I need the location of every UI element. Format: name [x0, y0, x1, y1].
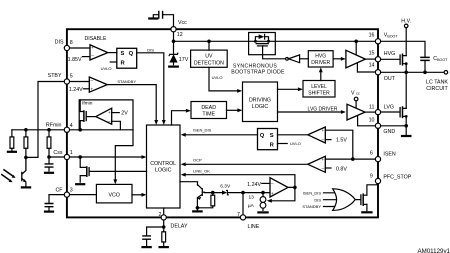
wire 0.8V reference stub: [325, 167, 331, 169]
pin 4 RFmin: [64, 127, 69, 132]
svg-text:16: 16: [369, 32, 375, 38]
svg-text:ISEN_DIS: ISEN_DIS: [193, 128, 212, 133]
wire 1.24V reference stub: [262, 182, 270, 184]
pin 8 DIS: [64, 45, 69, 50]
svg-text:+: +: [271, 191, 274, 196]
wire half-bridge node: [405, 64, 407, 73]
svg-text:STBY: STBY: [48, 73, 62, 79]
node RFmin / Ifmin source: [78, 128, 82, 132]
svg-text:VBOOT: VBOOT: [384, 33, 399, 39]
transistor Q low-side MOSFET: [381, 111, 400, 113]
node H.V. terminal: [404, 24, 408, 28]
pin 16 VBOOT: [375, 39, 380, 44]
svg-text:+: +: [321, 157, 324, 162]
pin 6 ISEN: [375, 157, 380, 162]
svg-text:LOGIC: LOGIC: [252, 104, 269, 110]
svg-text:Css: Css: [53, 150, 62, 156]
diode bootstrap: [255, 37, 268, 42]
ground (Css cap): [45, 172, 53, 174]
svg-text:DIS: DIS: [314, 197, 321, 202]
op-amp HVG output buffer: [346, 50, 366, 68]
op-amp Ifmin error amp 2V: [96, 108, 112, 124]
svg-text:SHIFTER: SHIFTER: [308, 90, 330, 96]
wire LINE internal rail: [205, 192, 271, 194]
svg-text:8: 8: [70, 40, 73, 46]
svg-text:STANDBY: STANDBY: [117, 79, 136, 84]
svg-text:6.3V: 6.3V: [220, 183, 231, 189]
svg-text:1.24V: 1.24V: [247, 182, 261, 188]
wire comparator to latch S: [108, 52, 117, 54]
svg-text:CONTROL: CONTROL: [150, 161, 176, 167]
svg-text:Vcc: Vcc: [178, 20, 187, 26]
wire STANDBY signal to control logic: [107, 85, 156, 121]
ground (zener 17V): [169, 65, 178, 67]
wire driving logic LVG out: [278, 111, 342, 113]
svg-text:LC TANK: LC TANK: [426, 79, 448, 85]
svg-text:DRIVING: DRIVING: [249, 97, 271, 103]
ground (line clamp): [193, 210, 201, 212]
node bootstrap diode cathode tap: [267, 40, 270, 43]
svg-text:LVG: LVG: [384, 105, 394, 111]
wire 1.5V reference stub: [325, 139, 331, 141]
wire latch S from comparator: [278, 134, 308, 136]
wire UV detection to rail: [208, 41, 210, 50]
wire dead time to driving logic: [227, 109, 239, 111]
svg-text:PFC_STOP: PFC_STOP: [383, 175, 411, 181]
wire HVG driver to output stage: [333, 58, 342, 60]
svg-text:0.8V: 0.8V: [336, 167, 347, 173]
svg-text:BOOTSTRAP DIODE: BOOTSTRAP DIODE: [231, 69, 285, 75]
wire buffer to HVG pin 15: [365, 58, 375, 60]
wire Css pin external: [49, 156, 64, 158]
svg-text:17V: 17V: [179, 57, 189, 63]
svg-text:RFmin: RFmin: [46, 122, 62, 128]
resistor Rfmin: [11, 130, 13, 151]
wire OUT pin to LC tank: [381, 71, 445, 73]
wire control logic to DELAY pin 2: [163, 208, 165, 215]
op-amp standby comparator 1.24V: [89, 77, 107, 92]
svg-text:Ifmin: Ifmin: [82, 101, 93, 107]
svg-text:HVG: HVG: [384, 51, 395, 57]
svg-text:1.5V: 1.5V: [336, 137, 347, 143]
svg-text:+: +: [108, 110, 111, 115]
wire STBY pin to external optocoupler: [28, 82, 64, 158]
svg-text:GND: GND: [383, 129, 395, 135]
wire VBOOT to buffer top: [355, 41, 357, 54]
wire pin 5 to standby comparator: [70, 81, 90, 83]
transistor bootstrap sync MOSFET: [256, 43, 268, 45]
capacitor Vcc bypass: [159, 12, 163, 19]
node Vcc terminal LVG: [354, 97, 358, 101]
ground (PFC MOSFET): [362, 211, 371, 213]
node optocoupler collector: [24, 156, 28, 160]
wire control logic to dead time: [172, 111, 187, 125]
pin 10 GND: [375, 123, 380, 128]
node Vcc rail / zener: [172, 40, 176, 44]
wire UVLO from UV detection to driving logic: [209, 67, 238, 91]
node LINE pin tap: [241, 191, 245, 195]
ground (Css MOSFET): [76, 183, 84, 185]
wire ISEN pin 6 line: [325, 158, 375, 160]
flip-flop S-R latch (ISEN): [258, 129, 278, 150]
wire latch Q DIS signal to control logic: [137, 53, 164, 121]
block Ifmin: [79, 100, 133, 130]
wire driving logic to level shifter: [278, 88, 299, 90]
svg-text:15: 15: [369, 51, 375, 57]
svg-text:µA: µA: [248, 203, 255, 209]
svg-text:HVG: HVG: [315, 53, 326, 59]
transistor PFC_STOP open drain MOSFET: [360, 195, 362, 205]
wire 1.85V reference stub: [82, 56, 90, 58]
wire LINE_OK to control logic: [185, 174, 295, 176]
svg-text:DETECTION: DETECTION: [194, 60, 224, 66]
svg-text:6: 6: [370, 151, 373, 157]
wire GND pin to ground: [381, 125, 407, 127]
pin 14 OUT: [375, 70, 380, 75]
ground (delay resistor): [160, 246, 168, 248]
op-amp LVG output buffer: [347, 104, 365, 120]
pin 5 STBY: [64, 79, 69, 84]
wire amp feedback to RFmin line: [112, 121, 121, 130]
svg-text:–: –: [108, 119, 111, 124]
svg-text:14: 14: [369, 62, 375, 68]
svg-text:–: –: [322, 166, 325, 171]
svg-text:DIS: DIS: [147, 48, 154, 53]
svg-text:AM01129v1: AM01129v1: [417, 248, 450, 253]
wire VBOOT to CBOOT: [381, 41, 425, 57]
block CONTROL LOGIC: [147, 125, 181, 208]
svg-text:+: +: [91, 45, 94, 50]
ground (optocoupler): [22, 186, 30, 188]
svg-text:STANDBY: STANDBY: [302, 204, 321, 209]
svg-text:1.24V: 1.24V: [69, 87, 83, 93]
op-amp ISEN 1.5V comparator: [308, 127, 326, 143]
svg-text:ISEN_DIS: ISEN_DIS: [303, 190, 322, 195]
svg-text:DISABLE: DISABLE: [85, 36, 107, 42]
svg-text:S: S: [270, 133, 274, 139]
svg-text:ISEN: ISEN: [383, 152, 396, 158]
IC L6599 outline: [67, 29, 378, 217]
svg-text:2: 2: [159, 212, 162, 218]
ground (power stage): [402, 135, 410, 137]
inverter buffer bootstrap gate: [286, 57, 289, 60]
svg-text:VCO: VCO: [108, 193, 119, 199]
gate OR (PFC stop): [333, 189, 356, 211]
transistor optocoupler photo-BJT: [22, 157, 26, 180]
zener diode 17V: [173, 41, 175, 64]
wire H.V. to high-side drain: [405, 28, 407, 56]
svg-text:1.85V: 1.85V: [68, 57, 82, 63]
wire 2V reference into amp: [112, 112, 120, 114]
svg-text:DEAD: DEAD: [201, 105, 216, 111]
svg-text:LOGIC: LOGIC: [155, 168, 172, 174]
pin 1 Css: [64, 154, 69, 159]
wire Vcc internal rail to VBOOT pin 16: [174, 32, 376, 42]
svg-text:LVG DRIVER: LVG DRIVER: [308, 106, 338, 112]
capacitor CBOOT: [421, 57, 429, 60]
svg-text:+: +: [321, 128, 324, 133]
svg-text:UVLO: UVLO: [212, 75, 223, 80]
flip-flop S-R latch (disable): [117, 48, 137, 68]
wire level shifter to HVG driver: [320, 71, 322, 80]
transistor Q high-side MOSFET: [381, 58, 400, 60]
pin 7 LINE: [240, 215, 245, 220]
svg-text:TIME: TIME: [202, 111, 215, 117]
svg-text:CIRCUIT: CIRCUIT: [426, 86, 448, 92]
block UV DETECTION: [191, 50, 228, 67]
wire LVG buffer return to GND pin 10: [358, 116, 376, 126]
svg-text:DIS: DIS: [55, 39, 64, 45]
ground (CF cap): [45, 211, 53, 213]
svg-text:S: S: [121, 51, 125, 57]
node DELAY junction: [162, 225, 166, 229]
wire Vcc terminal to LVG buffer: [355, 101, 357, 108]
svg-text:+: +: [90, 86, 93, 91]
svg-text:10: 10: [369, 118, 375, 124]
diode 6.3V zener: [222, 190, 227, 194]
wire pin 4 RFmin line: [70, 129, 134, 131]
node bootstrap diode anode tap: [254, 40, 257, 43]
wire buffer return to OUT pin 14: [357, 64, 375, 72]
pin 11 LVG: [375, 110, 380, 115]
wire 1.24V reference stub: [83, 88, 89, 90]
ground (Vcc cap): [149, 17, 157, 19]
svg-text:7: 7: [237, 212, 240, 218]
wire Ifmin output to VCO: [115, 130, 133, 181]
svg-text:UVLO: UVLO: [101, 66, 112, 71]
wire ISEN to 1.5V comparator: [325, 130, 353, 159]
svg-text:2V: 2V: [121, 111, 128, 117]
svg-text:LEVEL: LEVEL: [311, 84, 327, 90]
op-amp ISEN 0.8V comparator: [308, 156, 326, 172]
svg-text:OUT: OUT: [384, 76, 396, 82]
wire comparator output node: [270, 175, 295, 201]
svg-text:1: 1: [70, 150, 73, 156]
pin 2 DELAY: [161, 215, 166, 220]
svg-text:–: –: [322, 137, 325, 142]
node Css cap top: [47, 155, 51, 159]
node current source tap: [261, 191, 265, 195]
svg-text:5: 5: [70, 74, 73, 80]
light arrows optocoupler: [2, 170, 13, 180]
block synchronous bootstrap diode: [249, 33, 276, 55]
svg-text:4: 4: [70, 123, 73, 129]
block VCO: [96, 184, 132, 203]
svg-text:UV: UV: [205, 54, 213, 60]
resistor line clamp emitter: [197, 193, 212, 208]
svg-text:H.V.: H.V.: [401, 19, 411, 25]
capacitor Css: [48, 157, 50, 171]
svg-text:–: –: [271, 181, 274, 186]
block DRIVING LOGIC: [243, 82, 278, 122]
svg-text:OCP: OCP: [193, 158, 202, 163]
wire CF pin external: [49, 195, 64, 204]
resistor DELAY: [163, 227, 165, 246]
node LC tank terminal: [444, 71, 448, 75]
ground (current source): [258, 211, 267, 213]
svg-text:–: –: [91, 78, 94, 83]
svg-text:DELAY: DELAY: [171, 224, 188, 230]
node emitter/resistor junction: [196, 206, 200, 210]
capacitor DELAY: [143, 236, 150, 239]
svg-text:LINE: LINE: [248, 224, 260, 230]
wire pin 8 to disable comparator: [70, 47, 91, 49]
node half bridge / OUT: [404, 71, 408, 75]
op-amp disable comparator 1.85V: [90, 45, 108, 60]
node GND junction: [404, 124, 408, 128]
wire OR gate input stubs: [324, 193, 337, 207]
resistor soft-start series: [48, 130, 50, 157]
ground (delay cap): [143, 246, 151, 248]
node feedback resistor top: [24, 128, 28, 132]
svg-text:Q: Q: [260, 133, 265, 139]
op-amp line sense comparator 1.24V: [270, 178, 288, 197]
pin 15 HVG: [375, 57, 380, 62]
ground (Rfmin): [8, 151, 16, 153]
wire OR output to PFC MOSFET gate: [355, 199, 360, 201]
node resistor top: [211, 191, 215, 195]
wire VCO to control logic: [132, 194, 143, 196]
wire ISEN_DIS latch Q to control logic: [185, 134, 258, 136]
svg-text:SYNCHRONOUS: SYNCHRONOUS: [233, 63, 277, 69]
wire OCP comparator output to control logic: [185, 163, 308, 165]
svg-text:LINE_OK: LINE_OK: [193, 168, 210, 173]
svg-text:–: –: [91, 53, 94, 58]
wire Css pin to control logic: [70, 156, 143, 158]
svg-text:13: 13: [248, 195, 254, 201]
wire LINE pin 7: [242, 193, 244, 215]
node ISEN junction: [351, 157, 355, 161]
pin 9 PFC_STOP: [375, 178, 380, 183]
block HVG DRIVER: [308, 51, 333, 67]
node CBOOT bottom: [423, 71, 427, 75]
wire control logic to line clamp transistor: [180, 182, 198, 186]
wire CF pin to VCO: [70, 194, 97, 196]
transistor line clamp BJT: [197, 185, 202, 208]
pin 12 Vcc: [171, 27, 176, 32]
transistor Css discharge MOSFET: [80, 157, 86, 182]
svg-text:UVLO: UVLO: [290, 141, 301, 146]
svg-text:3: 3: [70, 188, 73, 194]
node Css discharge tap: [78, 155, 82, 159]
current source 13uA: [262, 193, 264, 211]
wire RFmin external line: [12, 129, 64, 131]
wire DELAY external network: [147, 220, 164, 236]
node Css network top: [47, 128, 51, 132]
resistor feedback: [25, 130, 27, 158]
pin 3 CF: [64, 192, 69, 197]
wire latch R UVLO stub: [278, 143, 288, 145]
wire LVG buffer to pin 11: [365, 111, 375, 113]
svg-text:CF: CF: [55, 188, 63, 194]
svg-text:CBOOT: CBOOT: [433, 56, 448, 62]
svg-text:DRIVER: DRIVER: [311, 60, 330, 66]
block DEAD TIME: [191, 102, 227, 119]
node VBOOT feed to buffer: [354, 40, 358, 44]
capacitor CF: [45, 204, 53, 207]
wire Vcc decoupling cap to pin 12: [153, 15, 173, 27]
svg-text:Q: Q: [129, 51, 134, 57]
wire UVLO stub to latch R: [110, 61, 117, 63]
svg-text:12: 12: [177, 32, 183, 38]
transistor Ifmin mirror MOSFET: [80, 100, 83, 130]
svg-text:11: 11: [369, 104, 375, 110]
svg-text:9: 9: [370, 174, 373, 180]
block LEVEL SHIFTER: [303, 81, 335, 98]
node UV detection tap: [207, 40, 211, 44]
